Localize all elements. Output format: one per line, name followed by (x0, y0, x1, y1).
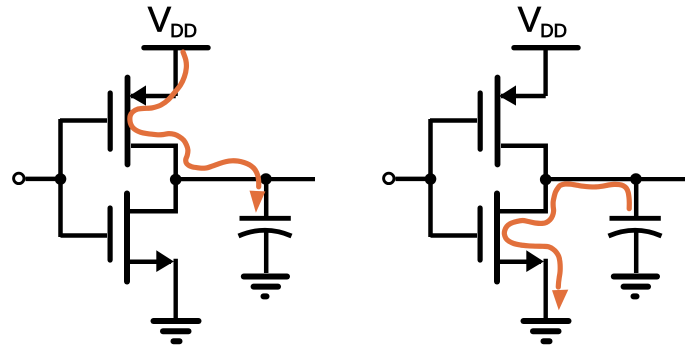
svg-text:V: V (148, 1, 172, 40)
wire output net (right) (546, 177, 685, 181)
label VDD (right) (518, 1, 567, 42)
wire input to node (26, 177, 63, 182)
node input junction dot (55, 173, 67, 185)
PMOS M3 drain lead wire (501, 146, 546, 180)
PMOS M1 drain lead wire (131, 146, 176, 180)
current flow arrow I-discharge (orange squiggle CL to ground) (504, 184, 629, 310)
wire cap to ground (264, 232, 269, 273)
PMOS M1 source arrow (129, 85, 146, 105)
NMOS M4 source arrow (526, 250, 544, 272)
arrowhead I-discharge (552, 290, 568, 311)
NMOS M4 channel bar (494, 194, 500, 282)
input terminal circle (right) (384, 173, 394, 183)
arrowhead I-charge (250, 191, 266, 213)
wire cap node to top plate (264, 180, 269, 217)
node output junction dot (170, 174, 182, 186)
svg-text:DD: DD (170, 20, 197, 41)
NMOS M2 channel bar (124, 194, 130, 282)
capacitor CL curved plate (right) (609, 230, 662, 236)
node output junction dot (right) (540, 174, 552, 186)
PMOS M3 gate lead wire (430, 118, 477, 123)
wire NMOS source to ground (173, 259, 177, 318)
current flow arrow I-charge (orange squiggle VDD to CL) (130, 52, 266, 213)
wire NMOS source to ground (right) (544, 259, 548, 318)
PMOS M3 source lead wire (501, 94, 546, 99)
ground symbol (NMOS source, right) (524, 321, 569, 341)
NMOS M4 drain lead wire (500, 180, 546, 211)
capacitor CL top plate (240, 216, 291, 221)
VDD supply bar (right) (514, 45, 578, 50)
wire cap node to top plate (right) (634, 180, 639, 217)
wire input to node (right) (396, 177, 433, 182)
VDD supply bar (left) (144, 45, 208, 50)
label VDD (left) (148, 1, 197, 42)
PMOS M1 channel bar (125, 78, 131, 165)
wire input gate riser (right) (428, 119, 433, 237)
NMOS M2 gate lead wire (61, 233, 108, 238)
node capacitor junction dot (right) (630, 173, 642, 185)
PMOS M3 channel bar (495, 78, 501, 165)
PMOS M3 source arrow (499, 85, 516, 105)
ground symbol (capacitor, right) (614, 277, 657, 297)
NMOS M2 source lead wire (130, 259, 171, 264)
capacitor CL curved plate (239, 230, 292, 236)
wire VDD stem (right) (543, 50, 547, 96)
NMOS M4 gate lead wire (431, 233, 478, 238)
svg-text:V: V (518, 1, 542, 40)
NMOS M2 gate bar (107, 208, 112, 260)
PMOS M3 gate bar (478, 93, 483, 149)
node input junction dot (right) (425, 173, 437, 185)
capacitor CL top plate (right) (610, 216, 661, 221)
NMOS M2 source arrow (156, 250, 174, 272)
PMOS M1 gate lead wire (60, 118, 107, 123)
NMOS M2 drain lead wire (130, 180, 176, 211)
NMOS M4 gate bar (478, 208, 483, 260)
ground symbol (NMOS source) (154, 321, 199, 341)
wire VDD stem (left) (173, 50, 177, 96)
ground symbol (capacitor) (244, 277, 287, 297)
wire input gate riser (58, 119, 63, 237)
PMOS M1 gate bar (108, 93, 113, 149)
PMOS M1 source lead wire (131, 94, 176, 99)
svg-text:DD: DD (540, 20, 567, 41)
NMOS M4 source lead wire (500, 259, 541, 264)
input terminal circle (14, 173, 24, 183)
node capacitor junction dot (260, 173, 272, 185)
wire output net (176, 177, 315, 181)
wire cap to ground (right) (634, 232, 639, 273)
